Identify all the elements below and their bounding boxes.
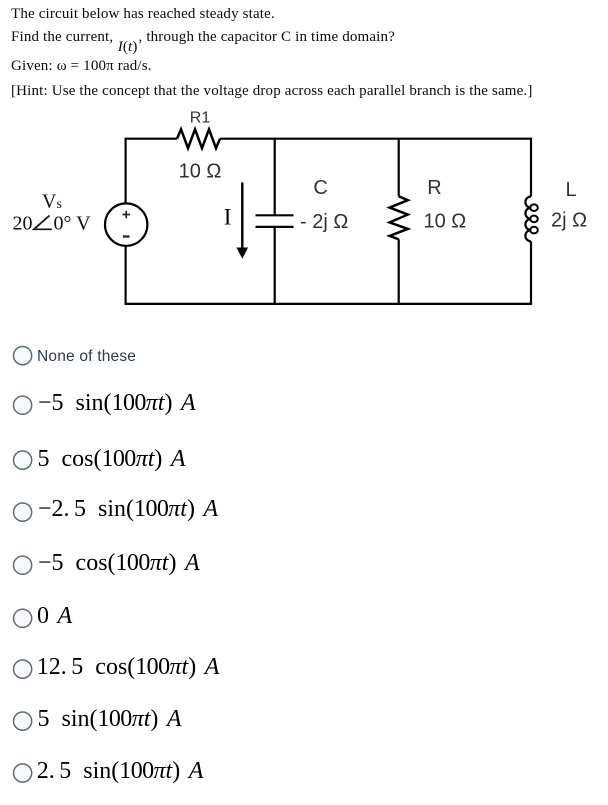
radio option 2 xyxy=(14,396,32,414)
angle symbol xyxy=(34,216,52,230)
radio option 5 xyxy=(14,556,32,574)
radio option 4 xyxy=(14,503,32,521)
question text line 1 xyxy=(11,7,275,22)
current I arrow xyxy=(241,182,243,248)
svg-text:10 Ω: 10 Ω xyxy=(179,161,222,183)
wire left vertical upper (top corner to source +) xyxy=(124,138,126,203)
voltage source VS circle xyxy=(105,203,147,245)
wire inductor L branch upper xyxy=(530,138,532,197)
radio buttons column xyxy=(0,0,50,805)
wire inductor L branch lower xyxy=(530,241,532,305)
option 5 text xyxy=(38,551,200,575)
svg-text:I: I xyxy=(224,205,232,230)
wire bottom horizontal xyxy=(125,303,533,305)
svg-text:2j Ω: 2j Ω xyxy=(551,210,587,232)
option 3 text xyxy=(38,447,186,471)
option 9 text xyxy=(37,759,204,783)
wire left vertical lower (source - to bottom corner) xyxy=(124,246,126,305)
option 4 text xyxy=(38,497,218,521)
wire capacitor branch lower xyxy=(274,227,276,305)
svg-text:- 2j Ω: - 2j Ω xyxy=(300,211,348,233)
question text line 4 xyxy=(11,84,532,99)
svg-text:0° V: 0° V xyxy=(54,213,92,235)
wire resistor R branch upper xyxy=(398,139,400,197)
radio option 9 xyxy=(14,764,32,782)
radio option 1 xyxy=(14,347,32,365)
question text line 2 xyxy=(11,30,395,45)
svg-text:R1: R1 xyxy=(190,109,211,126)
wire resistor R branch lower xyxy=(398,239,400,305)
question text line 3 xyxy=(11,59,152,74)
capacitor C bottom plate xyxy=(256,226,294,228)
radio option 8 xyxy=(14,712,32,730)
radio option 7 xyxy=(14,660,32,678)
option 1 text xyxy=(37,349,136,365)
capacitor C top plate xyxy=(256,214,294,216)
wire capacitor branch upper xyxy=(274,139,276,216)
svg-text:R: R xyxy=(427,177,441,199)
plus sign inside source xyxy=(122,211,130,219)
option 7 text xyxy=(37,655,220,679)
resistor R1 zigzag xyxy=(177,129,220,148)
minus sign inside source xyxy=(123,235,130,237)
inductor L coil xyxy=(525,197,531,242)
svg-text:C: C xyxy=(313,177,327,199)
option 8 text xyxy=(38,707,182,731)
radio option 6 xyxy=(14,609,32,627)
wire top horizontal (R1 to right corner) xyxy=(220,138,531,140)
radio option 3 xyxy=(14,451,32,469)
resistor R zigzag xyxy=(390,196,408,239)
wire top-left horizontal (source to R1) xyxy=(126,138,177,140)
svg-text:L: L xyxy=(566,179,577,201)
option 6 text xyxy=(37,604,72,628)
svg-text:10 Ω: 10 Ω xyxy=(424,211,467,233)
option 2 text xyxy=(38,391,196,415)
